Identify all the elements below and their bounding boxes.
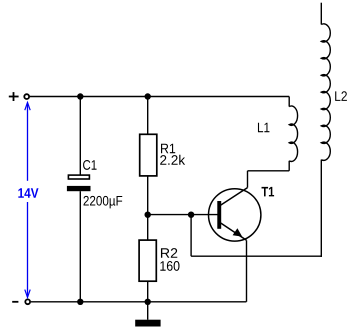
wire ground stub (147, 302, 149, 320)
resistor R2 (139, 240, 156, 281)
inductor L1 (289, 97, 297, 171)
node junction top C1 (77, 93, 83, 99)
capacitor C1 negative plate (67, 186, 91, 191)
label L2 (335, 91, 347, 101)
node junction R1 R2 base (145, 212, 151, 218)
wire R2 upper (147, 215, 149, 240)
wire collector to L1 (248, 170, 290, 172)
label 14V (18, 188, 38, 197)
wire R1 lower (147, 176, 149, 215)
resistor R1 (140, 134, 157, 176)
node junction bottom C1 (77, 299, 83, 305)
wire C1 upper (79, 97, 81, 175)
label R1 (161, 144, 175, 153)
label 2.2k (160, 155, 185, 165)
label C1 (83, 160, 96, 170)
minus terminal symbol (12, 301, 18, 303)
wire base horizontal (148, 214, 218, 216)
transistor T1 (209, 188, 261, 242)
label T1 (262, 187, 275, 196)
wire bottom rail (31, 301, 247, 303)
label R2 (161, 248, 177, 258)
wire top rail (30, 96, 289, 98)
wire R1 upper (147, 97, 149, 135)
wire collector vertical (247, 171, 249, 188)
minus terminal open circle (25, 299, 30, 304)
capacitor C1 positive plate (68, 175, 89, 179)
node junction base feedback (188, 212, 194, 218)
ground (135, 320, 160, 327)
wire emitter vertical (246, 240, 248, 301)
plus terminal open circle (24, 94, 29, 99)
plus terminal symbol (9, 92, 19, 101)
wire feedback horizontal (191, 255, 322, 257)
wire R2 lower (147, 282, 149, 302)
label 2200uF (83, 196, 122, 209)
blue voltage arrow 14V (25, 102, 30, 297)
label 160 (160, 261, 179, 271)
node junction top R1 (145, 93, 151, 99)
wire C1 lower (79, 191, 81, 302)
wire base feedback vertical (190, 215, 192, 257)
node junction ground (145, 299, 151, 305)
label L1 (258, 123, 269, 132)
inductor L2 (321, 3, 330, 161)
wire feedback to L2 vertical (320, 160, 322, 257)
